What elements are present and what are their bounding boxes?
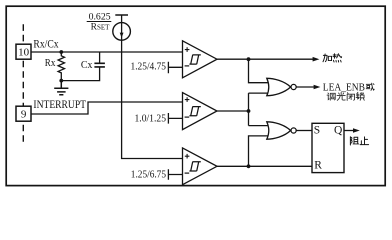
svg-text:1.25/4.75: 1.25/4.75 xyxy=(131,61,167,72)
label 阻止 (inhibit) xyxy=(350,137,368,145)
svg-text:Q: Q xyxy=(334,125,343,137)
wire cap bottom to ground node xyxy=(61,67,99,80)
arrowhead Q output xyxy=(353,128,360,133)
wire comp2 - reference input with tick xyxy=(168,113,182,124)
SR latch U1 xyxy=(312,123,344,172)
supply rail tick xyxy=(115,14,128,16)
current source I=0.625/RSET xyxy=(113,23,131,41)
wire comp2 output xyxy=(217,110,249,112)
wire comp3 output to latch R xyxy=(217,165,312,167)
wire current source vertical xyxy=(121,15,123,52)
wire Rx/Cx net: pin10 to comp1 + input xyxy=(31,51,183,53)
svg-text:10: 10 xyxy=(18,47,30,59)
svg-text:Cx: Cx xyxy=(81,59,93,71)
node Rx bottom junction xyxy=(59,79,63,83)
wire comp1 - reference input with tick xyxy=(168,62,182,73)
resistor Rx xyxy=(58,52,64,81)
svg-text:RSET: RSET xyxy=(91,23,111,33)
op-amp comparator 3 xyxy=(183,148,218,185)
label 调光闭锁 (dimming latch) xyxy=(327,92,364,100)
wire vertical drop to comp3 + input xyxy=(122,52,183,159)
svg-text:S: S xyxy=(314,125,320,137)
op-amp comparator 1 xyxy=(183,41,218,78)
label 加热 (heat) hand-drawn glyphs xyxy=(323,54,342,62)
arrowhead heater output xyxy=(313,57,320,62)
svg-text:1.0/1.25: 1.0/1.25 xyxy=(135,114,167,125)
svg-text:Rx: Rx xyxy=(45,57,56,69)
label 或 (or) xyxy=(366,83,374,90)
pin 10 box xyxy=(16,44,31,59)
wire comp3 - reference input with tick xyxy=(168,169,182,179)
svg-text:LEA_ENB: LEA_ENB xyxy=(323,83,365,94)
wire NOR2 output to latch S xyxy=(296,130,312,132)
wire latch Q output xyxy=(344,130,353,132)
dashed IC boundary line xyxy=(22,24,24,142)
node comp2 output junction xyxy=(247,109,251,113)
svg-text:9: 9 xyxy=(21,109,27,121)
wire comp1 output to heater arrow xyxy=(217,58,313,60)
fraction bar xyxy=(87,21,112,23)
node comp1 output junction xyxy=(247,57,251,61)
NOR gate G1 xyxy=(267,78,291,95)
node comp3 output junction xyxy=(247,164,251,168)
svg-text:Rx/Cx: Rx/Cx xyxy=(33,39,58,51)
svg-text:1.25/6.75: 1.25/6.75 xyxy=(131,169,166,180)
wire INTERRUPT from pin9 to comp2 + input xyxy=(31,102,183,114)
wire cap top stub xyxy=(99,52,101,63)
wire comp1 branch down to NOR1 input 1 xyxy=(249,59,270,82)
wire NOR1 output to LEA_ENB arrow xyxy=(296,86,314,88)
svg-text:R: R xyxy=(314,159,322,171)
node Rx top junction xyxy=(59,50,63,54)
arrowhead LEA_ENB output xyxy=(314,85,321,90)
capacitor Cx xyxy=(94,63,105,67)
svg-text:INTERRUPT: INTERRUPT xyxy=(33,99,86,111)
NOR gate G2 xyxy=(267,122,291,139)
ground xyxy=(54,81,68,95)
wire comp2 branches to NOR1 input 2 and NOR2 input 1 xyxy=(249,93,270,126)
wire comp3 branch up to NOR2 input 2 xyxy=(249,136,270,166)
frame border xyxy=(6,6,385,185)
op-amp comparator 2 xyxy=(183,93,218,130)
pin 9 box xyxy=(16,106,31,121)
